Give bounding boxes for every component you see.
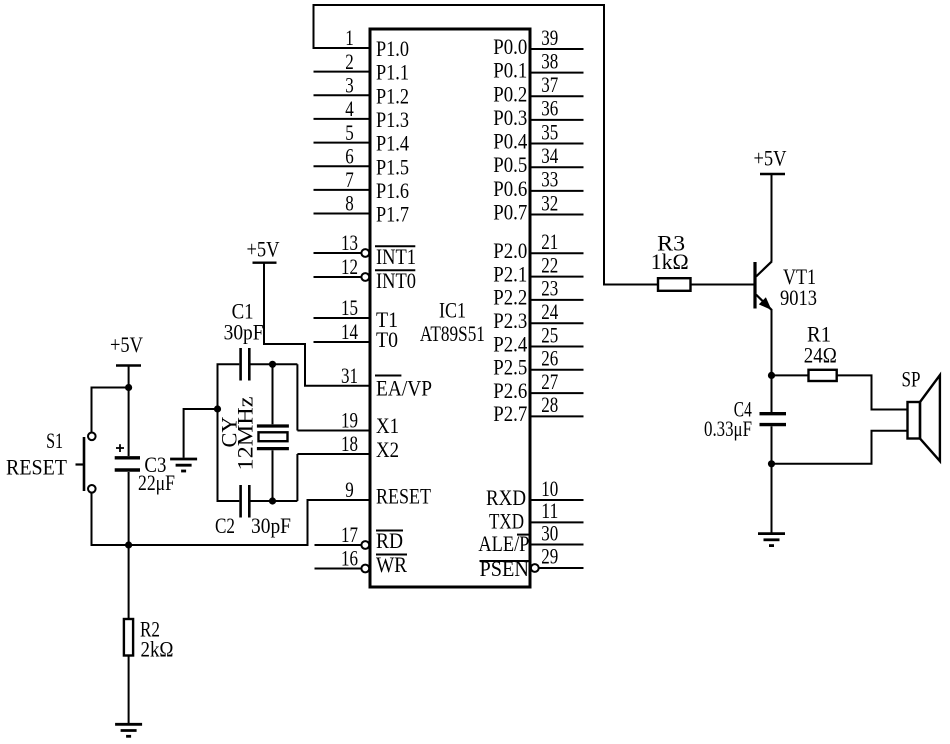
wire: C4 bottom node to speaker bottom terminal — [772, 431, 907, 464]
node: junction C4 bottom / speaker return — [768, 460, 775, 467]
svg-text:P0.6: P0.6 — [493, 176, 527, 201]
wire: switch S1 bottom to reset rail — [92, 493, 308, 545]
node pin 38 P0.1 stub + number — [493, 48, 583, 82]
svg-text:P0.2: P0.2 — [493, 81, 527, 106]
wire: pin 1 P1.0 loop to transistor base (top) — [314, 5, 659, 285]
svg-text:PSEN: PSEN — [480, 556, 530, 581]
svg-text:P2.7: P2.7 — [493, 401, 527, 426]
capacitor C2 30pF — [215, 485, 291, 538]
wire: crystal vertical (bottom) — [272, 450, 274, 501]
svg-text:X1: X1 — [376, 413, 399, 438]
svg-text:7: 7 — [345, 167, 354, 192]
svg-text:25: 25 — [541, 322, 558, 347]
power +5V symbol (above C1, feeds EA/VP) — [247, 237, 280, 263]
node pin 16 WR stub + bubble + number — [315, 546, 408, 577]
node: junction crystal-bottom / X2 — [269, 497, 276, 504]
node pin 39 P0.0 stub + number — [493, 25, 583, 59]
svg-text:22: 22 — [541, 252, 558, 277]
svg-text:INT1: INT1 — [376, 244, 416, 269]
svg-text:5: 5 — [345, 120, 354, 145]
svg-text:12: 12 — [341, 254, 358, 279]
node pin 31 EA/VP label + number — [341, 363, 432, 400]
svg-text:8: 8 — [345, 191, 354, 216]
svg-text:13: 13 — [341, 230, 358, 255]
svg-text:P1.6: P1.6 — [376, 178, 409, 203]
ground (speaker return) — [758, 534, 785, 546]
node pin 27 P2.6 stub + number — [493, 369, 583, 403]
svg-text:30pF: 30pF — [251, 513, 291, 538]
svg-text:EA/VP: EA/VP — [376, 375, 432, 400]
wire: R3 to transistor base — [691, 284, 754, 286]
svg-text:P1.5: P1.5 — [376, 154, 409, 179]
svg-text:16: 16 — [341, 546, 358, 571]
svg-text:1: 1 — [345, 25, 354, 50]
node pin 22 P2.1 stub + number — [493, 252, 583, 286]
wire: branch to switch S1 top — [92, 388, 129, 433]
node pin 15 T1 stub + number — [314, 295, 399, 332]
wire: R2 to ground — [128, 656, 130, 724]
node pin 10 RXD stub + number — [486, 476, 584, 510]
svg-text:P1.7: P1.7 — [376, 202, 409, 227]
wire: crystal cap ground branch — [184, 409, 218, 458]
svg-text:2: 2 — [345, 49, 354, 74]
resistor R2 2k ohm — [124, 617, 174, 662]
svg-text:32: 32 — [541, 190, 558, 215]
svg-text:4: 4 — [345, 96, 354, 121]
node: junction +5V / S1 branch — [125, 384, 132, 391]
wire: +5V to EA/VP pin 31 — [264, 263, 370, 386]
svg-text:24Ω: 24Ω — [804, 343, 837, 368]
node pin 25 P2.4 stub + number — [493, 322, 583, 356]
node pin 21 P2.0 stub + number — [493, 229, 583, 263]
svg-text:38: 38 — [541, 48, 558, 73]
ground (below R2) — [115, 724, 142, 736]
switch S1 RESET pushbutton — [6, 428, 96, 493]
svg-text:24: 24 — [541, 299, 558, 324]
svg-text:31: 31 — [341, 363, 358, 388]
node pin 3 P1.2 stub + number — [314, 73, 410, 109]
wire: +5V to collector — [771, 174, 773, 262]
node pin 1 P1.0 stub + number — [345, 25, 409, 61]
power +5V symbol (reset network) — [110, 332, 143, 366]
node: junction reset rail / R2 — [125, 541, 132, 548]
wire: emitter down to R1/C4 node — [771, 310, 773, 376]
svg-text:AT89S51: AT89S51 — [420, 321, 485, 346]
wire: C3 bottom to reset rail — [128, 472, 130, 546]
svg-text:23: 23 — [541, 276, 558, 301]
wire: X1 vertical — [296, 364, 298, 430]
svg-text:P2.6: P2.6 — [493, 378, 527, 403]
svg-text:RESET: RESET — [376, 484, 431, 509]
node pin 26 P2.5 stub + number — [493, 346, 583, 380]
resistor R3 1k ohm — [651, 230, 691, 291]
svg-text:33: 33 — [541, 167, 558, 192]
node pin 32 P0.7 stub + number — [493, 190, 583, 224]
svg-text:WR: WR — [376, 552, 407, 577]
svg-text:IC1: IC1 — [439, 297, 466, 322]
svg-text:P1.1: P1.1 — [376, 60, 409, 85]
svg-text:P0.0: P0.0 — [493, 34, 527, 59]
node pin 7 P1.6 stub + number — [314, 167, 410, 203]
svg-text:X2: X2 — [376, 437, 399, 462]
capacitor C4 0.33uF — [704, 375, 786, 463]
svg-text:P2.1: P2.1 — [493, 261, 527, 286]
capacitor C3 22uF electrolytic — [115, 444, 175, 495]
node pin 24 P2.3 stub + number — [493, 299, 583, 333]
node pin 11 TXD stub + number — [489, 498, 584, 534]
node pin 29 PSEN stub + bubble + number — [480, 544, 584, 582]
svg-text:P2.5: P2.5 — [493, 355, 527, 380]
svg-text:P2.3: P2.3 — [493, 308, 527, 333]
svg-text:RD: RD — [376, 528, 403, 553]
power +5V symbol (collector supply) — [754, 145, 787, 174]
svg-text:+5V: +5V — [754, 145, 787, 170]
node pin 18 X2 stub + number — [297, 431, 399, 462]
svg-text:12MHz: 12MHz — [232, 396, 257, 470]
svg-text:6: 6 — [345, 143, 354, 168]
wire: crystal top rail (X1 net) — [217, 363, 298, 365]
speaker SP — [902, 366, 940, 461]
svg-text:30pF: 30pF — [224, 320, 264, 345]
crystal CY 12MHz — [216, 396, 289, 470]
wire: reset rail down to R2 — [128, 545, 130, 619]
svg-text:35: 35 — [541, 119, 558, 144]
svg-text:39: 39 — [541, 25, 558, 50]
svg-text:37: 37 — [541, 72, 558, 97]
svg-text:1kΩ: 1kΩ — [651, 249, 689, 274]
svg-text:2kΩ: 2kΩ — [141, 636, 174, 661]
svg-text:22μF: 22μF — [138, 470, 175, 495]
svg-text:26: 26 — [541, 346, 558, 371]
svg-text:P0.5: P0.5 — [493, 152, 527, 177]
svg-text:RESET: RESET — [6, 454, 68, 479]
svg-text:3: 3 — [345, 73, 354, 98]
svg-text:18: 18 — [341, 431, 358, 456]
svg-text:34: 34 — [541, 143, 558, 168]
svg-text:9: 9 — [345, 477, 354, 502]
wire: crystal vertical (top) — [272, 364, 274, 424]
ground (crystal capacitors) — [170, 459, 197, 471]
svg-text:21: 21 — [541, 229, 558, 254]
svg-text:29: 29 — [541, 544, 558, 569]
wire: left vertical of crystal caps — [217, 364, 219, 501]
node: junction crystal-top / X1 — [269, 361, 276, 368]
svg-text:P0.4: P0.4 — [493, 129, 527, 154]
svg-text:P2.2: P2.2 — [493, 285, 527, 310]
svg-text:RXD: RXD — [486, 485, 526, 510]
svg-text:C2: C2 — [215, 513, 235, 538]
node pin 14 T0 stub + number — [314, 319, 399, 352]
svg-text:P2.0: P2.0 — [493, 238, 527, 263]
node pin 9 RESET label + number + wire to reset network — [129, 477, 432, 545]
node: junction emitter / R1 / C4 top — [768, 372, 775, 379]
node pin 8 P1.7 stub + number — [314, 191, 410, 227]
node pin 33 P0.6 stub + number — [493, 167, 583, 201]
svg-text:S1: S1 — [46, 428, 63, 453]
wire: +5V down to C3 top — [128, 366, 130, 457]
node pin 13 INT1 stub + bubble + number — [314, 230, 417, 269]
svg-text:14: 14 — [341, 319, 358, 344]
node pin 5 P1.4 stub + number — [314, 120, 410, 156]
node pin 23 P2.2 stub + number — [493, 276, 583, 310]
svg-text:P2.4: P2.4 — [493, 331, 527, 356]
svg-text:P0.3: P0.3 — [493, 105, 527, 130]
svg-text:SP: SP — [902, 366, 921, 391]
op-amp: IC1 AT89S51 microcontroller body — [370, 29, 530, 587]
svg-text:19: 19 — [341, 408, 358, 433]
node pin 34 P0.5 stub + number — [493, 143, 583, 177]
svg-text:P1.3: P1.3 — [376, 107, 409, 132]
svg-text:0.33μF: 0.33μF — [704, 416, 752, 441]
svg-text:17: 17 — [341, 522, 358, 547]
svg-text:36: 36 — [541, 96, 558, 121]
svg-text:27: 27 — [541, 369, 558, 394]
svg-text:P1.0: P1.0 — [376, 36, 409, 61]
node pin 36 P0.3 stub + number — [493, 96, 583, 130]
svg-text:+5V: +5V — [247, 237, 280, 262]
transistor VT1 9013 NPN — [755, 261, 817, 310]
svg-text:10: 10 — [541, 476, 558, 501]
node pin 19 X1 stub + number — [297, 408, 399, 438]
wire: crystal bottom rail (X2 net) — [217, 454, 298, 501]
node pin 35 P0.4 stub + number — [493, 119, 583, 153]
svg-text:30: 30 — [541, 520, 558, 545]
svg-text:9013: 9013 — [780, 285, 817, 310]
node pin 12 INT0 stub + bubble + number — [314, 254, 417, 293]
node pin 2 P1.1 stub + number — [314, 49, 410, 85]
node pin 30 ALE/P stub + number — [478, 520, 583, 556]
resistor R1 24 ohm — [772, 322, 837, 382]
node pin 4 P1.3 stub + number — [314, 96, 410, 132]
svg-text:15: 15 — [341, 295, 358, 320]
wire: R1 to speaker top terminal — [837, 375, 907, 409]
svg-text:P0.1: P0.1 — [493, 58, 527, 83]
svg-text:P1.2: P1.2 — [376, 83, 409, 108]
svg-text:T0: T0 — [376, 327, 398, 352]
svg-text:P0.7: P0.7 — [493, 199, 527, 224]
svg-text:INT0: INT0 — [376, 268, 416, 293]
svg-text:+5V: +5V — [110, 332, 143, 357]
svg-text:28: 28 — [541, 392, 558, 417]
node pin 28 P2.7 stub + number — [493, 392, 583, 426]
svg-text:P1.4: P1.4 — [376, 131, 409, 156]
capacitor C1 30pF — [224, 299, 264, 381]
node pin 17 RD stub + bubble + number — [315, 522, 404, 553]
node: junction to crystal ground — [214, 405, 221, 412]
node pin 37 P0.2 stub + number — [493, 72, 583, 106]
node pin 6 P1.5 stub + number — [314, 143, 410, 179]
wire: C4 node to ground — [771, 464, 773, 533]
